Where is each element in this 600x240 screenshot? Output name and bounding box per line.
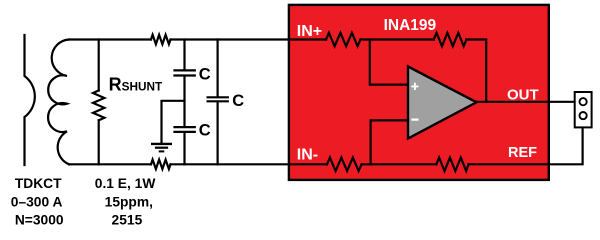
resistor RSHUNT branch wire bottom [98,120,100,164]
svg-text:N=3000: N=3000 [15,213,64,228]
svg-text:REF: REF [508,145,537,161]
transformer secondary winding [48,40,69,165]
svg-text:INA199: INA199 [384,17,437,34]
svg-text:0.1 E, 1W: 0.1 E, 1W [95,176,157,191]
capacitor C3 plates [208,97,228,101]
resistor RSHUNT zigzag [93,91,104,121]
svg-text:C: C [199,65,211,83]
resistor R1 (IN+ input) [326,33,361,46]
wire bottom rail middle [171,163,328,165]
transformer primary winding [25,35,35,165]
wire top rail middle [171,38,327,40]
resistor top-left (0.1 E 1W) [151,35,171,44]
svg-text:IN+: IN+ [297,23,322,40]
resistor bottom-left [151,160,171,169]
resistor R4 (REF) [436,158,468,171]
op-amp plus sign [411,83,418,90]
connector pin 2 [580,112,587,119]
svg-text:IN-: IN- [297,147,318,164]
svg-text:C: C [199,122,211,140]
op-amp U1 [408,67,477,139]
wire R2 to output node [466,40,486,102]
capacitor C1 branch upper wire [183,40,185,70]
wire REF rail to connector [469,119,583,164]
wire op-amp output [477,101,582,103]
resistor RSHUNT branch wire top [98,40,100,91]
wire bottom rail left [69,163,151,165]
wire IN+ node to R2 [361,38,434,40]
connector pin 1 [580,98,587,105]
capacitor C1 to C2 middle wire [183,77,185,127]
capacitor C3 branch lower wire [217,102,219,164]
svg-text:TDKCT: TDKCT [15,176,62,191]
svg-text:15ppm,: 15ppm, [105,195,153,210]
capacitor C2 plates [175,127,195,132]
capacitor C2 branch lower wire [183,133,185,164]
wire IN- node to R4 [362,163,437,165]
capacitor C1 plates [175,70,195,75]
amplifier block (red box) [289,5,549,180]
resistor R2 (feedback top) [434,33,467,46]
ground [151,144,172,152]
wire op-amp inverting input [371,120,408,164]
svg-text:OUT: OUT [507,86,539,103]
wire top rail left [69,38,151,40]
op-amp minus sign [411,118,418,120]
connector J1 body [575,92,592,127]
svg-text:0–300 A: 0–300 A [11,195,63,210]
capacitor C3 branch upper wire [217,40,219,97]
resistor R3 (IN- input) [327,158,362,171]
wire ground branch [162,101,185,143]
svg-text:C: C [232,92,244,110]
svg-text:2515: 2515 [112,213,143,228]
wire op-amp noninverting input [370,40,408,85]
